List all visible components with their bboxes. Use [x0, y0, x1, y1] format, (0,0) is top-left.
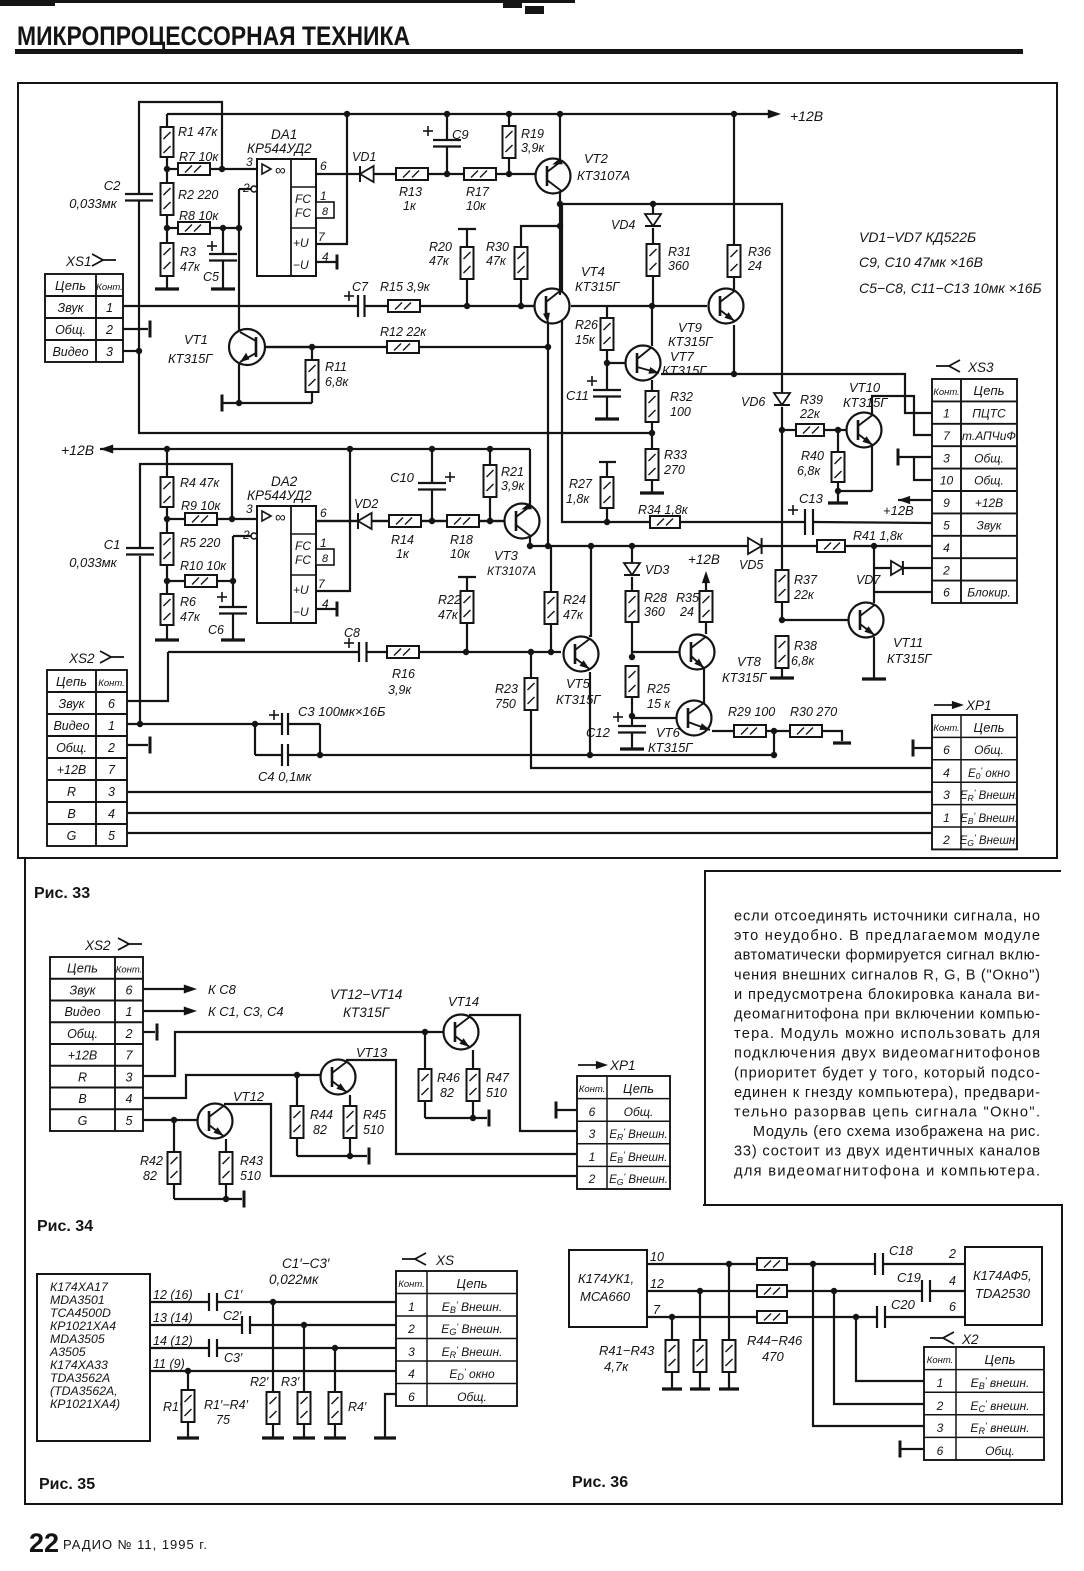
- svg-text:4: 4: [126, 1092, 133, 1106]
- lower section border: [25, 858, 1062, 1504]
- svg-text:1: 1: [589, 1150, 596, 1164]
- svg-text:R23: R23: [495, 682, 518, 696]
- svg-text:47к: 47к: [180, 610, 201, 624]
- XS3 ground ticks rows 3 and 10: [898, 449, 932, 481]
- svg-text:С20: С20: [891, 1297, 916, 1312]
- svg-text:R3′: R3′: [281, 1375, 300, 1389]
- svg-text:РАДИО № 11, 1995 г.: РАДИО № 11, 1995 г.: [63, 1537, 207, 1552]
- svg-text:3: 3: [106, 345, 113, 359]
- svg-text:Звук: Звук: [59, 697, 86, 711]
- svg-text:3: 3: [126, 1070, 133, 1084]
- svg-text:8: 8: [322, 206, 329, 218]
- svg-text:1: 1: [943, 811, 950, 825]
- wire R row to VT14 base: [143, 1029, 444, 1076]
- svg-text:автоматически формируется сигн: автоматически формируется сигнал вклю-: [734, 948, 1040, 964]
- label R44-R46 470: [747, 1333, 803, 1364]
- resistor R25 15к: [626, 666, 672, 719]
- pin wire 7: [647, 1303, 757, 1320]
- svg-text:Общ.: Общ.: [56, 741, 87, 755]
- svg-text:+12В: +12В: [790, 108, 823, 124]
- svg-text:КТ315Г: КТ315Г: [556, 692, 601, 707]
- svg-text:VD1−VD7 КД522Б: VD1−VD7 КД522Б: [859, 229, 976, 245]
- svg-text:Общ.: Общ.: [985, 1444, 1015, 1458]
- svg-text:XS3: XS3: [967, 360, 994, 375]
- svg-text:Общ.: Общ.: [974, 451, 1004, 465]
- resistor R5 220: [161, 519, 221, 581]
- wire XP1a obsh chassis tick: [556, 1102, 577, 1119]
- transistor VT8 КТ315Г: [632, 635, 767, 704]
- svg-text:R44−R46: R44−R46: [747, 1333, 803, 1348]
- svg-text:Общ.: Общ.: [974, 743, 1004, 757]
- svg-text:R20: R20: [429, 240, 452, 254]
- svg-text:VT9: VT9: [678, 320, 702, 335]
- svg-text:47к: 47к: [486, 254, 507, 268]
- resistor R21 3,9к: [484, 449, 526, 524]
- svg-text:33) состоит из двух идентичных: 33) состоит из двух идентичных каналов: [734, 1144, 1040, 1160]
- wire R bus XS2 to XP1: [127, 791, 932, 793]
- svg-text:С2′: С2′: [223, 1309, 242, 1323]
- resistor R47 510: [467, 1050, 510, 1121]
- svg-text:В: В: [78, 1092, 86, 1106]
- svg-text:К174УК1,: К174УК1,: [578, 1271, 634, 1286]
- svg-text:R40: R40: [801, 449, 824, 463]
- svg-text:Конт.: Конт.: [579, 1084, 606, 1095]
- svg-text:4: 4: [408, 1367, 415, 1381]
- svg-text:R11: R11: [325, 360, 347, 374]
- svg-text:VD4: VD4: [611, 218, 635, 232]
- connector XS1 label: [65, 254, 116, 269]
- svg-text:22к: 22к: [799, 407, 821, 421]
- wire bottom bus y=754: [320, 752, 777, 758]
- svg-text:6: 6: [408, 1390, 415, 1404]
- diode VD6: [741, 393, 790, 409]
- svg-text:1: 1: [108, 719, 115, 733]
- wire G row to VT12 base: [143, 1117, 198, 1123]
- svg-text:R18: R18: [450, 533, 473, 547]
- pin wire 12 (16) with C1': [150, 1288, 396, 1311]
- svg-text:Звук: Звук: [977, 519, 1003, 533]
- svg-text:5: 5: [943, 519, 950, 533]
- svg-text:КТ315Г: КТ315Г: [662, 363, 707, 378]
- wire audio1 bus y=306 from XS1: [123, 303, 534, 309]
- svg-text:7: 7: [653, 1303, 661, 1317]
- transistor VT3 КТ3107А: [487, 503, 540, 578]
- resistor R41a of R41-R43: [666, 1317, 679, 1388]
- ground under R40: [828, 501, 848, 504]
- capacitor C20: [877, 1297, 965, 1328]
- svg-text:3: 3: [108, 785, 115, 799]
- svg-text:2: 2: [948, 1247, 956, 1261]
- svg-text:VT2: VT2: [584, 151, 609, 166]
- svg-text:1: 1: [943, 407, 950, 421]
- capacitor C11: [566, 363, 621, 418]
- connector table XS2: [47, 670, 127, 846]
- svg-text:R39: R39: [800, 393, 823, 407]
- ground under R30a: [833, 741, 851, 744]
- resistor R19 3,9к: [503, 114, 546, 174]
- ground under R43a: [719, 1387, 739, 1390]
- wire VT5 collector: [590, 546, 592, 637]
- resistor R33 270: [646, 433, 687, 492]
- svg-text:КТ315Г: КТ315Г: [648, 740, 693, 755]
- svg-text:R45: R45: [363, 1108, 386, 1122]
- svg-text:24: 24: [747, 259, 762, 273]
- resistor R43a of R41-R43: [723, 1264, 736, 1388]
- wire C18 node to X2 row3: [813, 1264, 924, 1426]
- ground under C11: [595, 417, 619, 420]
- svg-text:КТ3107А: КТ3107А: [487, 564, 536, 578]
- connector XS label fig35: [402, 1253, 454, 1268]
- svg-text:VT11: VT11: [893, 635, 923, 650]
- svg-text:R6: R6: [180, 595, 196, 609]
- svg-text:Конт.: Конт.: [98, 678, 125, 689]
- resistor R28 360: [626, 591, 667, 660]
- resistor R3': [281, 1325, 311, 1437]
- svg-text:XS1: XS1: [65, 254, 92, 269]
- svg-text:82: 82: [313, 1123, 327, 1137]
- svg-text:FC: FC: [295, 206, 311, 220]
- resistor R30 47к: [486, 226, 560, 306]
- connector table XS fig35: [396, 1271, 517, 1406]
- label C1'-C3' 0,022мк: [269, 1256, 330, 1287]
- svg-text:С2: С2: [104, 178, 121, 193]
- svg-text:VT3: VT3: [494, 548, 519, 563]
- svg-text:R42: R42: [140, 1154, 163, 1168]
- pin wire 10: [647, 1250, 757, 1267]
- svg-text:6: 6: [937, 1444, 944, 1458]
- wire audio2 bus y=652: [168, 649, 561, 655]
- svg-text:6: 6: [108, 697, 115, 711]
- svg-text:К174ХА17: К174ХА17: [50, 1280, 109, 1294]
- transistor VT13: [321, 1045, 388, 1095]
- resistor R1 47к: [161, 114, 219, 169]
- svg-text:R44: R44: [310, 1108, 333, 1122]
- svg-text:47к: 47к: [563, 608, 584, 622]
- svg-text:XS2: XS2: [68, 651, 95, 666]
- svg-text:47к: 47к: [429, 254, 450, 268]
- svg-text:VT14: VT14: [448, 994, 479, 1009]
- svg-text:2: 2: [105, 323, 113, 337]
- svg-text:1: 1: [320, 189, 327, 203]
- wire XP1 obsh chassis tick: [913, 740, 932, 757]
- connector XS3 label: [936, 360, 994, 375]
- ground under C12: [620, 747, 644, 750]
- svg-text:−U: −U: [293, 258, 309, 272]
- svg-text:∞: ∞: [275, 162, 286, 179]
- capacitor C6: [208, 581, 247, 639]
- svg-text:КР1021ХА4: КР1021ХА4: [50, 1319, 116, 1333]
- figure 33 outer border: [18, 83, 1057, 858]
- IC box К174АФ5 TDA2530: [965, 1247, 1042, 1325]
- op-amp DA1 КР544УД2: [242, 127, 334, 276]
- svg-text:К С1, С3, С4: К С1, С3, С4: [208, 1004, 284, 1019]
- wire zvuk arrow К С8: [143, 982, 237, 997]
- svg-text:МИКРОПРОЦЕССОРНАЯ ТЕХНИКА: МИКРОПРОЦЕССОРНАЯ ТЕХНИКА: [17, 21, 410, 51]
- svg-text:R41 1,8к: R41 1,8к: [853, 529, 904, 543]
- transistor VT10 КТ315Г: [843, 380, 888, 491]
- resistor R40 6,8к: [797, 430, 872, 502]
- svg-text:R19: R19: [521, 127, 544, 141]
- svg-text:6: 6: [126, 983, 133, 997]
- svg-text:FC: FC: [295, 553, 311, 567]
- wire C19 node to X2 row2: [834, 1291, 924, 1404]
- svg-text:DA1: DA1: [271, 127, 297, 142]
- svg-text:единен к гнезду компьютера), п: единен к гнезду компьютера), предвари-: [734, 1085, 1040, 1101]
- connector XS2 label: [68, 651, 124, 666]
- resistor R37 22к: [776, 570, 818, 623]
- wire video arrow К С1 С3 С4: [143, 1004, 284, 1019]
- transistor VT9 КТ315Г: [668, 289, 744, 350]
- svg-text:(приоритет будет у того, котор: (приоритет будет у того, который подсо-: [734, 1065, 1040, 1081]
- svg-text:Рис. 34: Рис. 34: [37, 1218, 93, 1235]
- svg-text:E0' окно: E0' окно: [968, 766, 1011, 780]
- ground under R38: [770, 676, 794, 679]
- svg-text:R1 47к: R1 47к: [178, 125, 218, 139]
- ground under C6: [221, 638, 245, 641]
- capacitor C3 100мк: [252, 704, 386, 755]
- wire right rail x=782 VD6 branch: [779, 407, 785, 570]
- svg-text:R29 100: R29 100: [728, 705, 775, 719]
- svg-text:А3505: А3505: [49, 1345, 86, 1359]
- svg-text:R15 3,9к: R15 3,9к: [380, 280, 431, 294]
- svg-text:Конт.: Конт.: [398, 1279, 425, 1290]
- wire VT2 collector chain down x=560: [557, 114, 563, 289]
- svg-text:Видео: Видео: [52, 345, 88, 359]
- wire DA2 output pin6: [316, 520, 358, 522]
- svg-text:DA2: DA2: [271, 474, 298, 489]
- resistor R18 10к: [447, 515, 504, 561]
- svg-text:R34 1,8к: R34 1,8к: [638, 503, 689, 517]
- resistor R9 10к: [167, 499, 257, 525]
- wire VD7 branch vertical: [874, 546, 932, 592]
- connector table XS1: [45, 274, 123, 362]
- ground under R41a: [662, 1387, 682, 1390]
- resistor R36 24: [728, 114, 771, 289]
- svg-text:КТ315Г: КТ315Г: [722, 670, 767, 685]
- svg-text:R: R: [67, 785, 76, 799]
- wire X2 obsh chassis tick: [900, 1441, 924, 1458]
- resistor R31 360: [647, 244, 691, 306]
- svg-text:6: 6: [589, 1105, 596, 1119]
- label R1'-R4' 75: [204, 1398, 249, 1427]
- svg-text:4: 4: [108, 807, 115, 821]
- ground under R42a: [690, 1387, 710, 1390]
- capacitor C7: [344, 280, 369, 317]
- svg-text:Звук: Звук: [58, 301, 85, 315]
- svg-text:XP1: XP1: [965, 698, 992, 713]
- capacitor C13: [788, 491, 824, 535]
- svg-text:Цепь: Цепь: [55, 278, 86, 293]
- resistor R11 6,8к: [306, 347, 350, 403]
- caption Рис. 34: [37, 1218, 93, 1235]
- svg-text:Общ.: Общ.: [55, 323, 86, 337]
- svg-text:Цепь: Цепь: [623, 1081, 654, 1096]
- svg-text:VD1: VD1: [352, 150, 376, 164]
- wire DA2 pin4 to chassis: [316, 602, 337, 617]
- svg-text:22к: 22к: [793, 588, 815, 602]
- caption Рис. 36: [572, 1474, 628, 1491]
- svg-text:Видео: Видео: [53, 719, 89, 733]
- svg-text:0,033мк: 0,033мк: [69, 196, 117, 211]
- svg-text:R9 10к: R9 10к: [181, 499, 221, 513]
- svg-text:1к: 1к: [396, 547, 410, 561]
- transistor VT4 КТ315Г: [518, 264, 620, 324]
- svg-text:6: 6: [949, 1300, 956, 1314]
- svg-text:Рис. 35: Рис. 35: [39, 1476, 95, 1493]
- svg-text:С9: С9: [452, 127, 469, 142]
- resistor R17 10к: [464, 168, 536, 213]
- svg-text:R22: R22: [438, 593, 461, 607]
- svg-text:360: 360: [668, 259, 689, 273]
- svg-text:XS: XS: [435, 1253, 454, 1268]
- svg-text:1: 1: [937, 1376, 944, 1390]
- connector table XS2a fig34: [50, 957, 143, 1131]
- svg-text:510: 510: [240, 1169, 261, 1183]
- resistor R23 750: [495, 652, 538, 712]
- connector XS2a label fig34: [84, 938, 142, 953]
- svg-text:TCA4500D: TCA4500D: [50, 1306, 111, 1320]
- svg-text:(TDA3562A,: (TDA3562A,: [50, 1384, 118, 1398]
- svg-text:К174ХА33: К174ХА33: [50, 1358, 108, 1372]
- svg-text:47к: 47к: [438, 608, 459, 622]
- svg-text:14 (12): 14 (12): [153, 1334, 193, 1348]
- svg-text:VT4: VT4: [581, 264, 605, 279]
- svg-text:MDA3501: MDA3501: [50, 1293, 105, 1307]
- svg-text:G: G: [67, 829, 77, 843]
- svg-text:1: 1: [320, 536, 327, 550]
- svg-text:т.АПЧиФ: т.АПЧиФ: [962, 429, 1016, 443]
- svg-text:Цепь: Цепь: [985, 1352, 1016, 1367]
- svg-text:2: 2: [407, 1322, 415, 1336]
- svg-text:R46: R46: [437, 1071, 460, 1085]
- svg-text:чения внешних сигналов R, G, В: чения внешних сигналов R, G, В ("Окно"): [734, 967, 1040, 983]
- svg-text:15 к: 15 к: [647, 697, 671, 711]
- transistor VT2 КТ3107А: [536, 151, 631, 194]
- resistor R16 3,9к: [387, 646, 419, 697]
- junction R1 R7: [164, 166, 170, 172]
- svg-text:MDA3505: MDA3505: [50, 1332, 105, 1346]
- svg-text:С5: С5: [203, 270, 219, 284]
- wire VT9 emitter to XS3 row1: [661, 325, 932, 413]
- svg-text:15к: 15к: [575, 333, 596, 347]
- svg-text:4: 4: [943, 541, 950, 555]
- diode VD2: [354, 497, 389, 529]
- svg-text:R21: R21: [501, 465, 524, 479]
- svg-text:XS2: XS2: [84, 938, 111, 953]
- svg-text:Конт.: Конт.: [933, 723, 960, 734]
- pin wire 13 (14) with C2': [150, 1309, 396, 1334]
- ground under VT11: [862, 677, 886, 680]
- resistor R44 of R44-R46: [757, 1258, 875, 1270]
- ground wire under VT13: [297, 1148, 369, 1165]
- svg-text:75: 75: [216, 1413, 230, 1427]
- ground tick VT1 emitter: [222, 395, 312, 412]
- svg-text:R41−R43: R41−R43: [599, 1343, 655, 1358]
- capacitor C12: [586, 712, 646, 748]
- resistor R39 22к: [782, 393, 846, 436]
- svg-text:R2 220: R2 220: [178, 188, 218, 202]
- wire C1 vertical down to XS2 video row: [137, 556, 143, 727]
- svg-text:5: 5: [126, 1114, 133, 1128]
- svg-text:6: 6: [320, 159, 327, 173]
- connector XP1 label: [934, 698, 992, 713]
- svg-text:1к: 1к: [403, 199, 417, 213]
- svg-text:22: 22: [29, 1528, 59, 1558]
- ground wire under VT12: [174, 1191, 244, 1208]
- svg-text:С11: С11: [566, 388, 589, 403]
- svg-text:деомагнитофона при включении к: деомагнитофона при включении компью-: [734, 1007, 1040, 1023]
- svg-text:Цепь: Цепь: [974, 720, 1005, 735]
- svg-text:С3′: С3′: [224, 1351, 243, 1365]
- ground under C5: [211, 287, 235, 290]
- svg-text:3: 3: [246, 155, 253, 169]
- svg-text:Видео: Видео: [64, 1005, 100, 1019]
- IC box К174УК1 МСА660: [569, 1250, 647, 1327]
- svg-text:R38: R38: [794, 639, 817, 653]
- svg-text:R36: R36: [748, 245, 771, 259]
- resistor R12 22к: [380, 325, 427, 353]
- svg-text:R7 10к: R7 10к: [179, 150, 219, 164]
- svg-text:VD5: VD5: [739, 558, 763, 572]
- +12V arrow above R35: [688, 552, 720, 591]
- svg-text:ED' окно: ED' окно: [449, 1367, 495, 1382]
- ground under R1': [177, 1436, 199, 1439]
- svg-text:R31: R31: [668, 245, 691, 259]
- resistor R1' 75: [163, 1371, 195, 1437]
- wire VT1 collector / R12 y=348: [265, 344, 548, 350]
- svg-text:10к: 10к: [450, 547, 471, 561]
- resistor R22 47к: [438, 577, 476, 652]
- transistor VT12: [198, 1089, 265, 1139]
- resistor R13 1к: [396, 168, 464, 213]
- svg-text:VD7: VD7: [856, 573, 881, 587]
- transistor VT6 КТ315Г: [632, 701, 712, 756]
- svg-text:1: 1: [408, 1300, 415, 1314]
- svg-text:510: 510: [486, 1086, 507, 1100]
- svg-text:VT6: VT6: [656, 725, 681, 740]
- wire DA1 pin4 to chassis: [316, 255, 337, 270]
- ground under R6: [155, 638, 179, 641]
- text column border box: [705, 871, 1061, 1205]
- parts list note VD1-VD7: [859, 229, 1042, 296]
- svg-text:G: G: [78, 1114, 88, 1128]
- wire XS obsh to ground fig35: [374, 1394, 396, 1438]
- svg-text:Общ.: Общ.: [974, 474, 1004, 488]
- svg-text:FC: FC: [295, 192, 311, 206]
- svg-text:X2: X2: [961, 1332, 979, 1347]
- pin wire 11 (9): [150, 1357, 396, 1374]
- svg-text:+U: +U: [293, 236, 309, 250]
- svg-text:2: 2: [107, 741, 115, 755]
- label VT12-VT14 КТ315Г: [330, 987, 402, 1020]
- svg-text:3,9к: 3,9к: [521, 141, 545, 155]
- resistor R42a of R41-R43: [694, 1291, 707, 1388]
- svg-text:Звук: Звук: [70, 983, 97, 997]
- junction R4 R9: [164, 516, 170, 522]
- resistor R45 510: [344, 1095, 386, 1159]
- pin wire 12: [647, 1277, 757, 1294]
- connector table XS3: [932, 379, 1017, 603]
- resistor R45 of R44-R46: [757, 1285, 922, 1297]
- svg-text:С8: С8: [344, 626, 360, 640]
- svg-text:R5 220: R5 220: [180, 536, 220, 550]
- svg-text:VD2: VD2: [354, 497, 378, 511]
- junction R5 R10: [164, 578, 170, 584]
- svg-text:для видеомагнитофона и компьют: для видеомагнитофона и компьютера.: [734, 1163, 1040, 1179]
- svg-text:270: 270: [663, 463, 685, 477]
- connector table XP1a fig34: [577, 1076, 670, 1189]
- svg-text:6,8к: 6,8к: [791, 654, 815, 668]
